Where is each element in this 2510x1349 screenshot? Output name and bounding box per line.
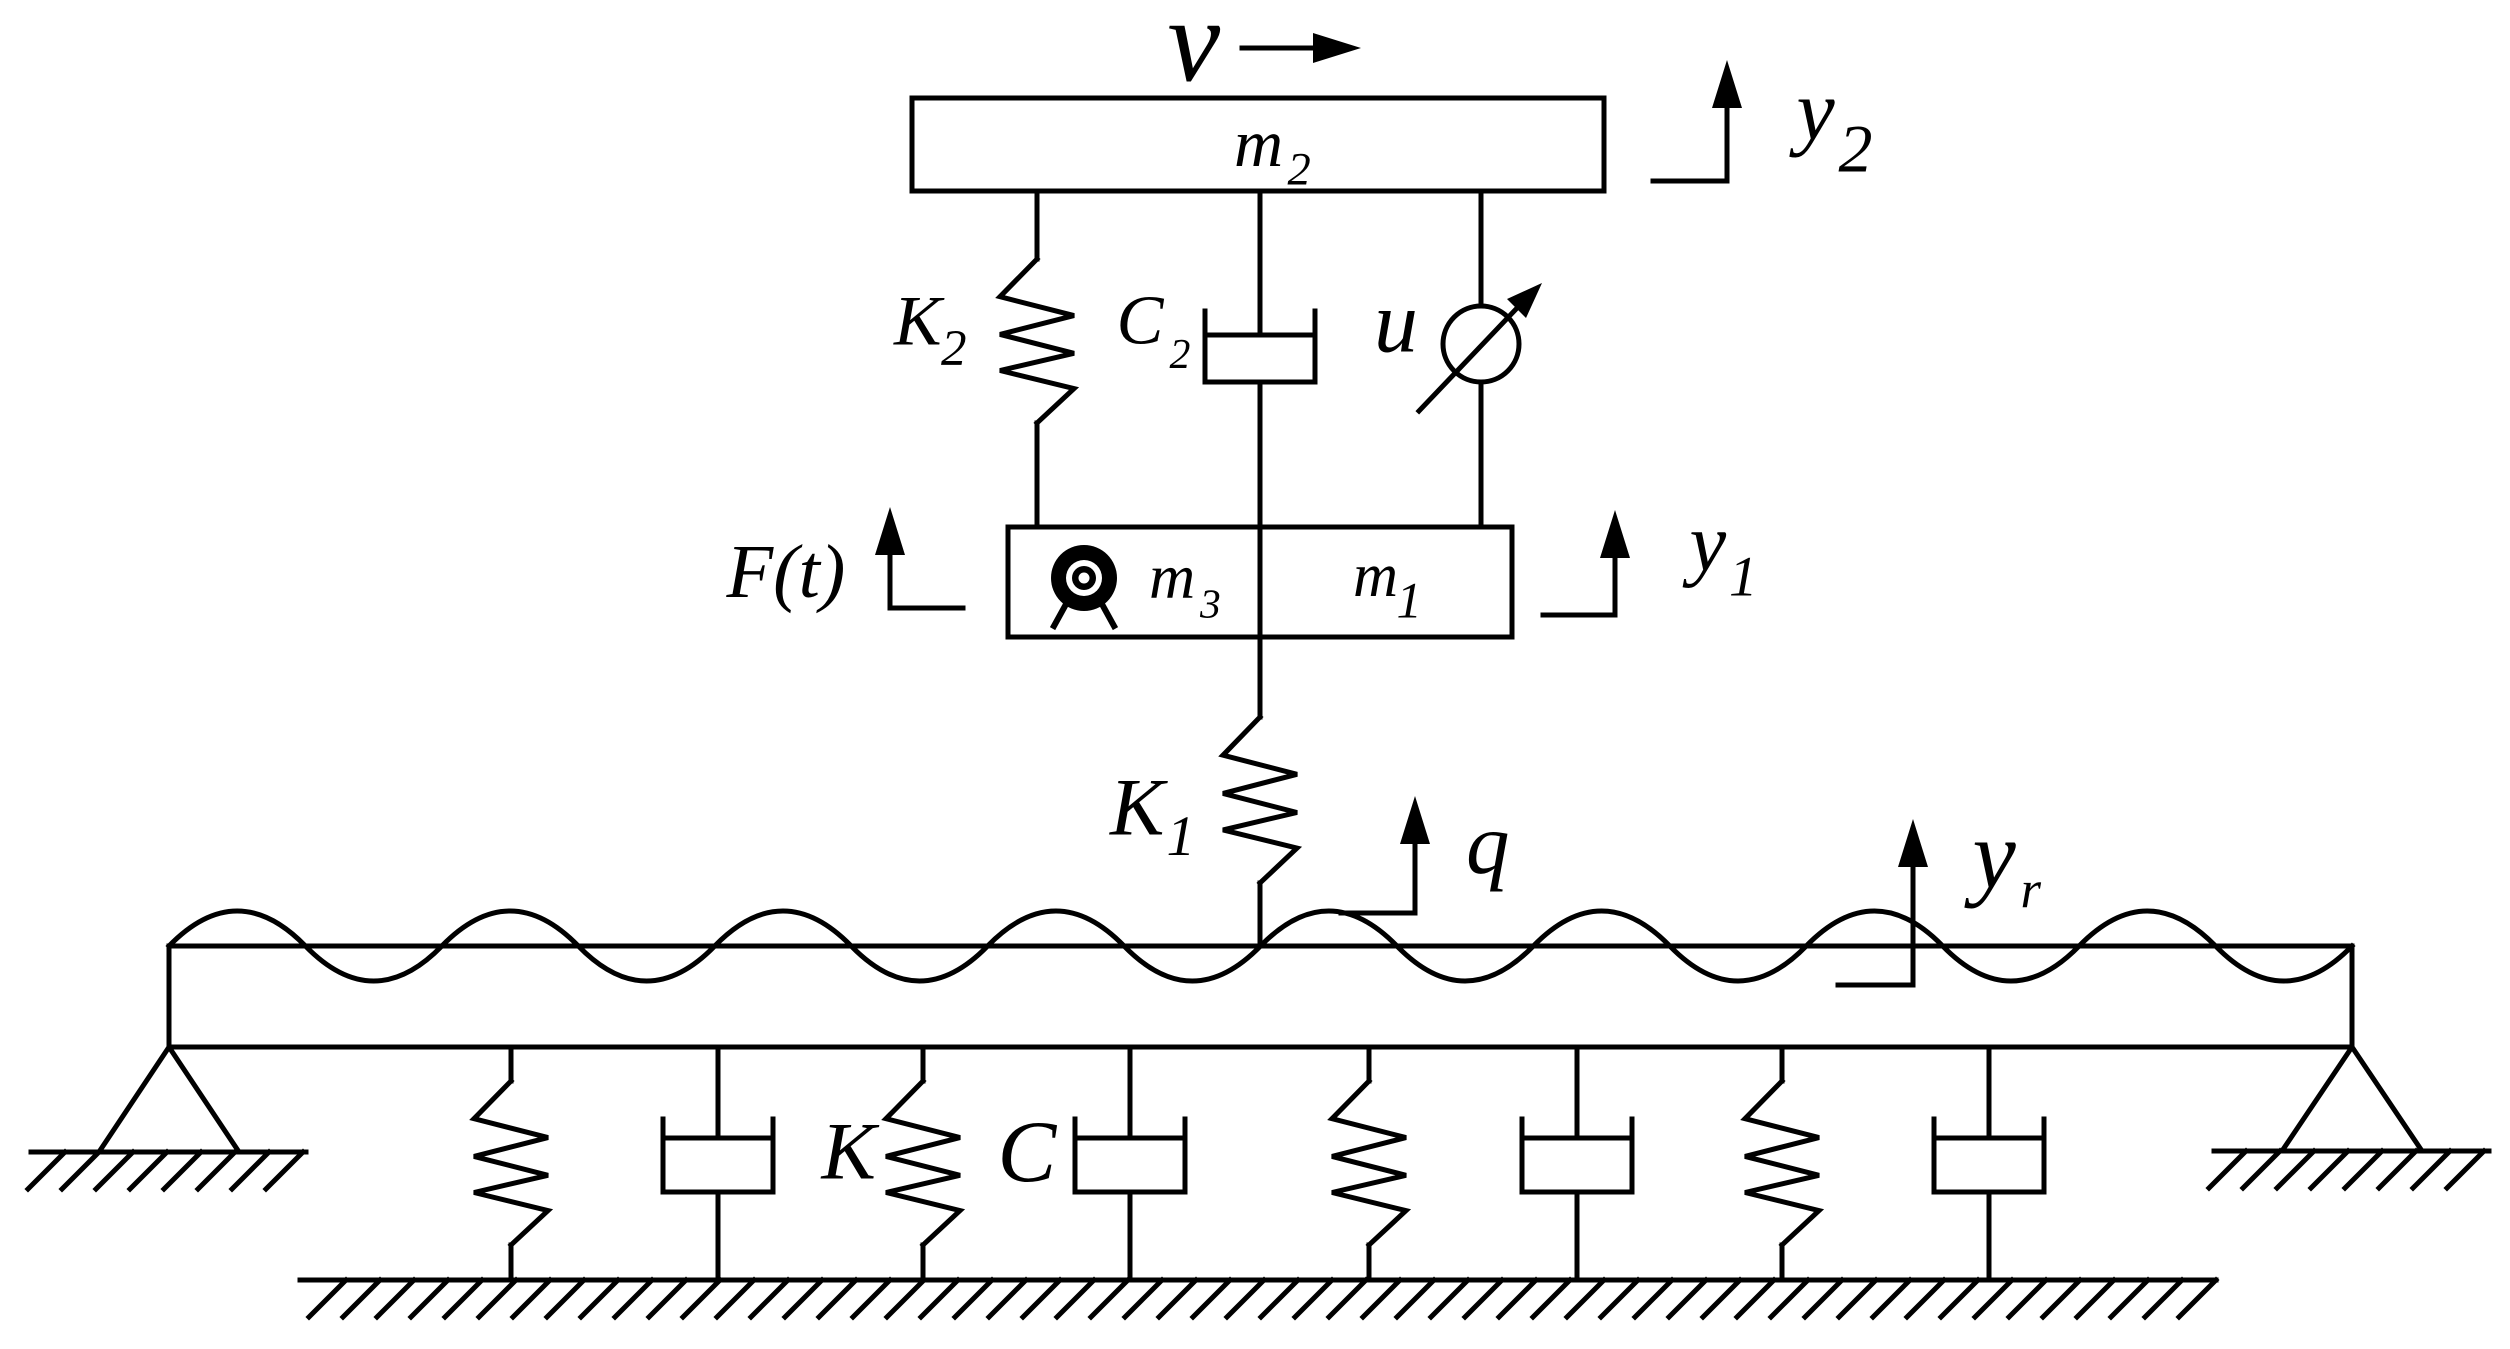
left support ground <box>31 1150 306 1155</box>
ground under foundation <box>300 1278 2216 1283</box>
foundation spring 4 <box>1780 1047 1785 1081</box>
damper C2 <box>1258 191 1263 335</box>
indicator arrow F(t) <box>890 555 963 608</box>
actuator u <box>1479 191 1484 306</box>
indicator arrow yr <box>1838 867 1913 985</box>
svg-text:C: C <box>998 1103 1058 1201</box>
foundation spring 3 <box>1367 1047 1372 1081</box>
svg-text:u: u <box>1374 275 1418 372</box>
svg-text:C: C <box>1117 282 1165 360</box>
svg-text:2: 2 <box>1288 145 1311 196</box>
foundation spring 2 <box>921 1047 926 1081</box>
svg-text:1: 1 <box>1729 546 1758 609</box>
svg-text:K: K <box>1109 762 1168 853</box>
motor wheel icon in m3 <box>1051 545 1117 611</box>
bridge beam <box>169 946 2352 1047</box>
right pin support <box>2282 1047 2422 1151</box>
spring K2 <box>1000 259 1074 423</box>
svg-text:3: 3 <box>1199 581 1221 627</box>
foundation damper 4 <box>1987 1047 1992 1138</box>
arrow v <box>1242 46 1313 51</box>
wire m2 to spring K2 <box>1035 191 1040 259</box>
svg-text:K: K <box>893 283 945 361</box>
wire m1 to spring K1 <box>1258 637 1263 717</box>
svg-text:y: y <box>1683 497 1727 589</box>
svg-text:2: 2 <box>941 320 967 377</box>
svg-text:m: m <box>1149 541 1195 612</box>
mass block m3/m1 <box>1008 527 1512 637</box>
foundation damper 1 <box>716 1047 721 1138</box>
indicator arrow y2 <box>1653 108 1727 181</box>
road roughness wave <box>169 911 2352 981</box>
svg-text:K: K <box>821 1106 880 1197</box>
right support ground <box>2214 1149 2489 1154</box>
svg-text:m: m <box>1353 541 1398 610</box>
foundation spring 1 <box>509 1047 514 1081</box>
svg-text:y: y <box>1964 802 2017 910</box>
svg-text:2: 2 <box>1839 111 1873 187</box>
svg-text:m: m <box>1234 105 1283 181</box>
svg-text:y: y <box>1789 62 1836 158</box>
wire K1 to bridge <box>1258 883 1263 946</box>
svg-text:1: 1 <box>1397 573 1422 629</box>
foundation damper 2 <box>1128 1047 1133 1138</box>
foundation damper 3 <box>1575 1047 1580 1138</box>
svg-text:F(t): F(t) <box>726 529 846 614</box>
svg-text:v: v <box>1168 0 1221 107</box>
wire K2 to m1 <box>1035 423 1040 527</box>
svg-text:q: q <box>1466 795 1510 892</box>
indicator arrow q <box>1341 844 1415 913</box>
svg-text:r: r <box>2021 861 2042 919</box>
svg-text:2: 2 <box>1170 332 1191 378</box>
mass m2 (vehicle body) <box>912 98 1604 191</box>
spring K1 (tyre) <box>1223 717 1297 883</box>
left pin support <box>99 1047 239 1152</box>
indicator arrow y1 <box>1543 558 1615 615</box>
svg-text:1: 1 <box>1167 805 1196 868</box>
